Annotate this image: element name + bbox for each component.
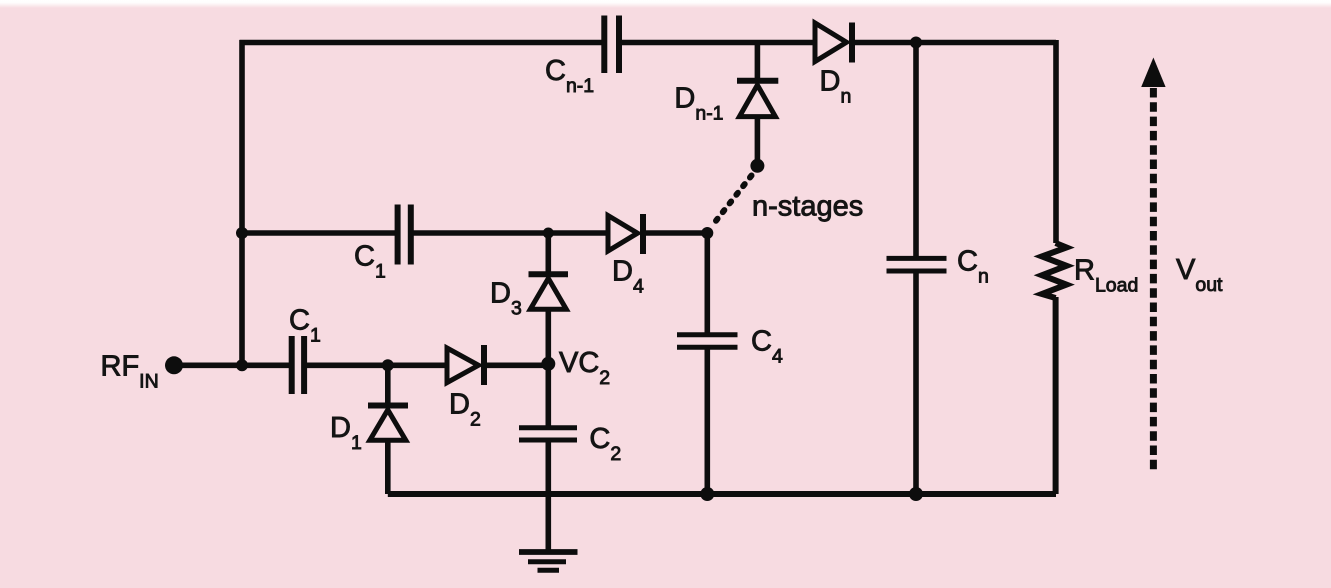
svg-text:Vout: Vout <box>1176 254 1223 296</box>
wire RF input rail middle segment <box>307 362 448 368</box>
capacitor Cn plates <box>887 256 947 261</box>
svg-text:D4: D4 <box>612 256 644 298</box>
diode D2 <box>447 348 479 383</box>
diode D1 <box>368 403 408 409</box>
wire D3 column top stub <box>545 233 551 272</box>
svg-text:VC2: VC2 <box>559 347 610 389</box>
wire RF input rail left segment <box>174 362 289 368</box>
diode Dn-1 <box>737 78 778 84</box>
ground <box>519 549 578 555</box>
wire middle rail centre segment <box>413 230 608 236</box>
svg-text:C4: C4 <box>751 326 783 368</box>
node junction D1 column / RF rail <box>382 359 394 371</box>
wire D1 column top stub <box>385 365 391 403</box>
capacitor C2 plates <box>519 425 577 430</box>
wire D1 column bottom stub <box>385 440 391 494</box>
svg-text:C2: C2 <box>589 423 621 465</box>
node junction Cn column / top rail <box>910 37 922 49</box>
diode D4 <box>608 216 638 252</box>
wire bottom rail <box>388 491 1056 497</box>
node Dn-1 stub end dot <box>750 159 764 173</box>
wire left vertical <box>239 40 245 365</box>
wire middle rail left segment <box>242 230 395 236</box>
node RF input terminal dot <box>165 356 183 374</box>
wire C2 to ground <box>545 440 551 552</box>
resistor RLoad zigzag <box>1042 243 1067 298</box>
capacitor C1 (middle) plates <box>395 205 401 265</box>
capacitor C4 plates <box>677 332 738 337</box>
capacitor Cn-1 plates <box>601 16 607 74</box>
node junction C4 column / bottom rail <box>700 487 714 501</box>
capacitor C1 (input) plates <box>289 336 295 394</box>
svg-text:RFIN: RFIN <box>101 351 159 393</box>
svg-text:n-stages: n-stages <box>752 191 863 223</box>
svg-text:C1: C1 <box>354 241 386 283</box>
svg-text:Cn-1: Cn-1 <box>545 55 594 97</box>
wire Dn-1 bottom stub <box>755 117 761 160</box>
svg-text:D2: D2 <box>449 389 481 431</box>
arrow Vout head <box>1141 58 1165 88</box>
wire top rail right segment <box>852 40 1056 46</box>
wire top rail middle segment <box>622 40 816 46</box>
svg-text:D3: D3 <box>490 278 522 320</box>
wire RF input rail right segment <box>484 362 548 368</box>
node junction RF rail / left vertical <box>236 359 248 371</box>
wire VC2 node stub <box>545 309 551 427</box>
wire Cn column top stub <box>913 43 919 259</box>
svg-text:Cn: Cn <box>957 246 989 288</box>
node junction C4 column / middle rail <box>701 227 713 239</box>
wire Dn-1 column top stub <box>755 43 761 79</box>
node junction D3 column / middle rail <box>543 228 554 239</box>
wire Vout dashed arrow shaft <box>1150 88 1157 471</box>
wire Cn column bottom stub <box>913 271 919 494</box>
wire middle rail right segment <box>643 230 710 236</box>
node junction Cn column / bottom rail <box>909 487 923 501</box>
node VC2 junction dot <box>541 357 555 371</box>
wire C4 column top stub <box>704 233 710 335</box>
wire RLoad column bottom stub <box>1053 297 1059 494</box>
wire RLoad column top stub <box>1053 40 1059 243</box>
node junction middle rail / left vertical <box>236 227 248 239</box>
wire top rail left segment <box>240 40 602 46</box>
svg-text:RLoad: RLoad <box>1074 255 1138 297</box>
diode Dn <box>815 23 847 62</box>
wire C4 column bottom stub <box>704 347 710 494</box>
svg-text:Dn-1: Dn-1 <box>674 83 723 125</box>
svg-text:D1: D1 <box>330 412 362 454</box>
diode D3 <box>529 271 569 277</box>
wire dotted n-stages link <box>712 176 752 227</box>
svg-text:Dn: Dn <box>820 65 852 107</box>
